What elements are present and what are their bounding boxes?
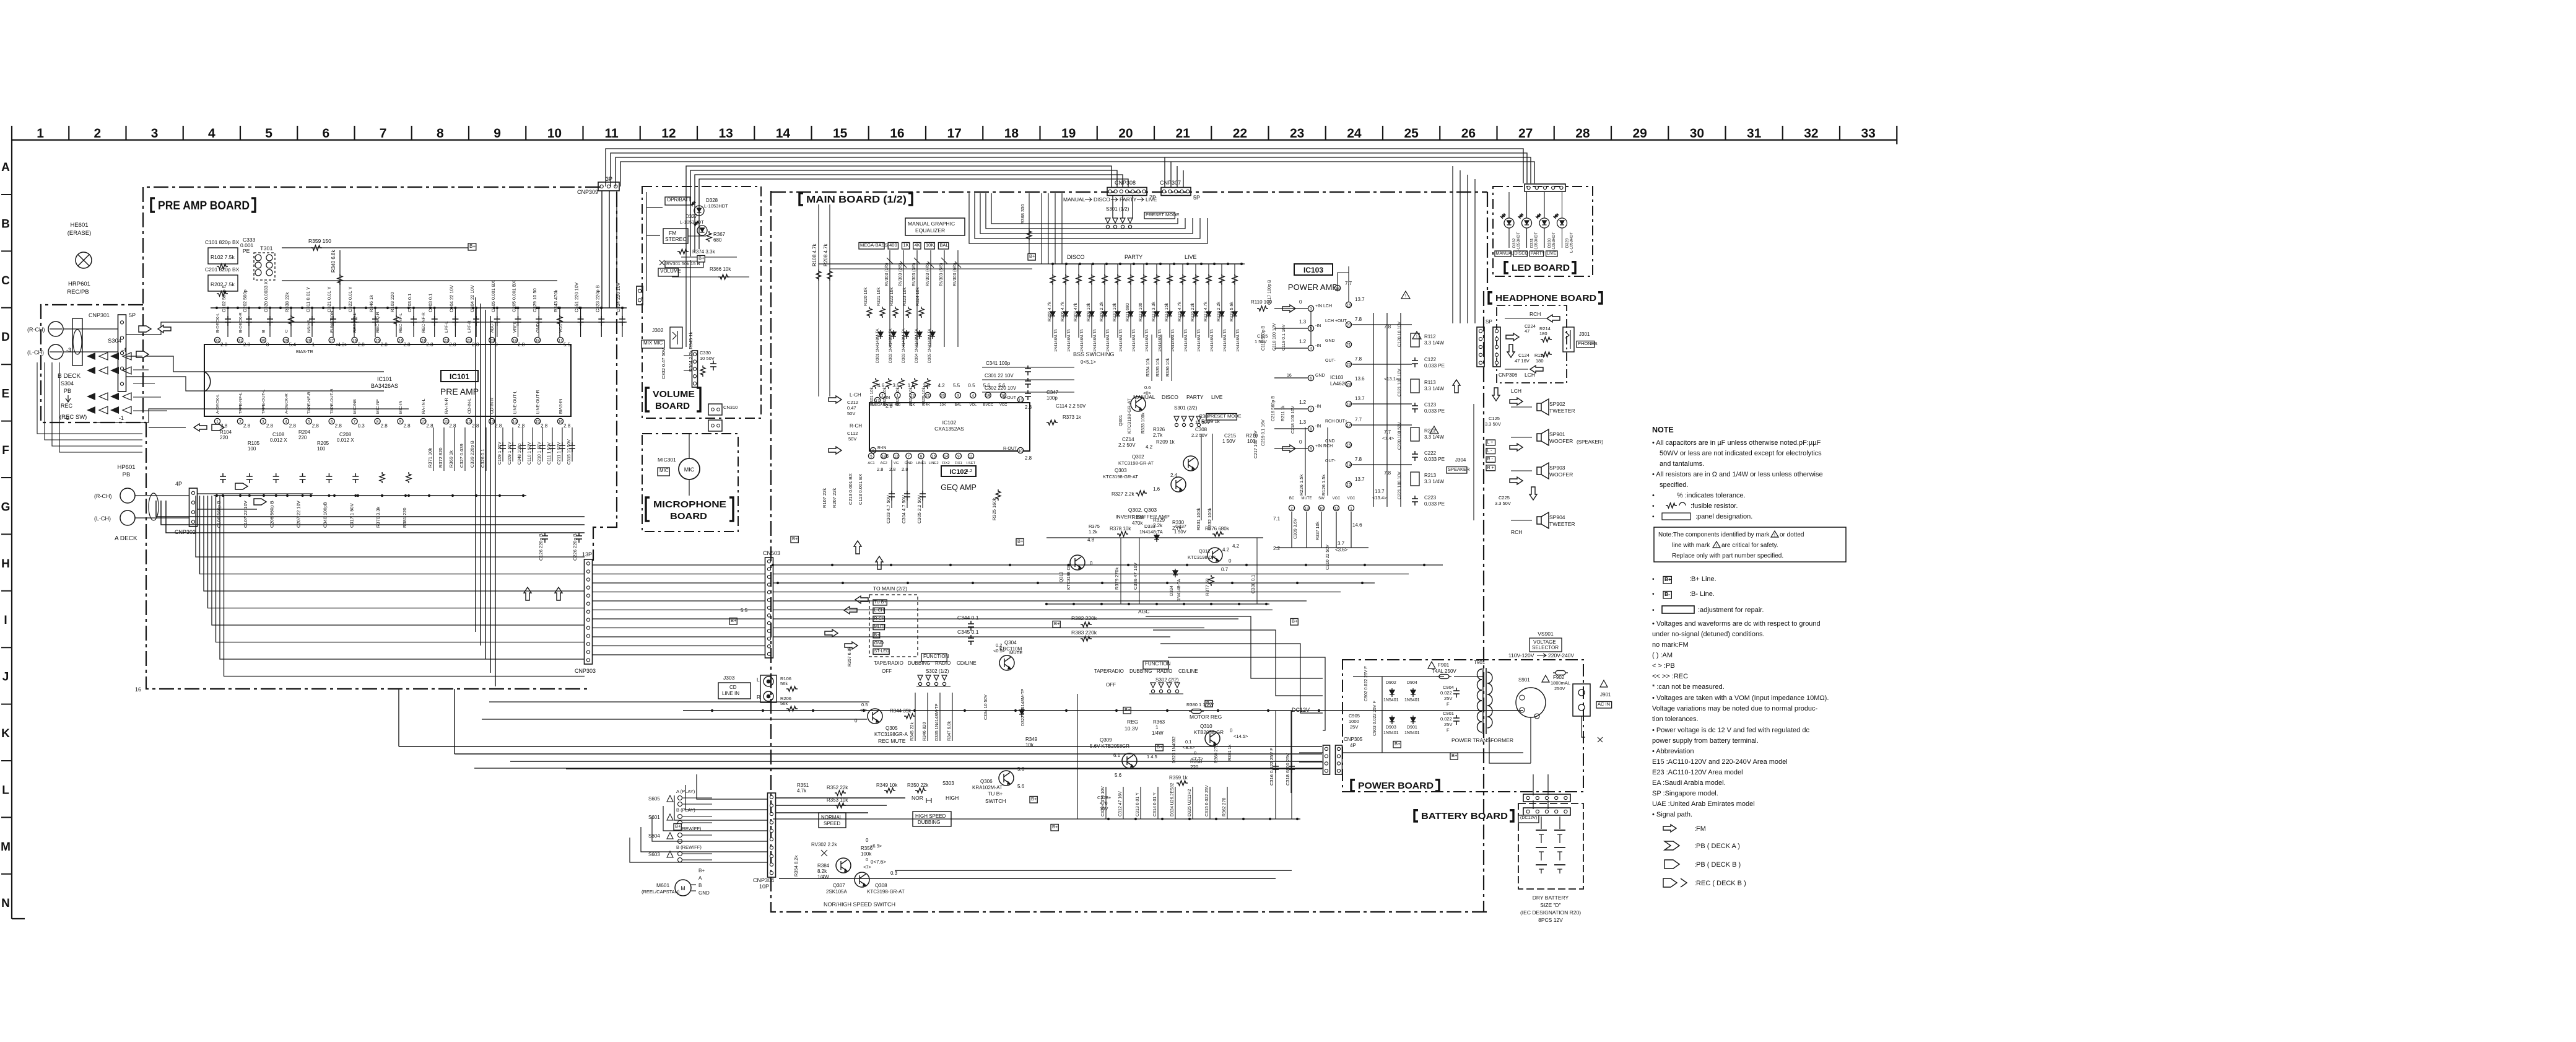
svg-text:-IN: -IN	[1315, 324, 1321, 328]
svg-text:VS901: VS901	[1538, 631, 1554, 637]
svg-text:7.8: 7.8	[1384, 470, 1391, 476]
svg-text:C310 22 50V: C310 22 50V	[1326, 545, 1330, 570]
signal arrow	[139, 326, 151, 332]
svg-text:2.8: 2.8	[335, 423, 342, 429]
svg-text:C330: C330	[700, 350, 711, 356]
svg-text:PRESET MODE: PRESET MODE	[1146, 212, 1179, 217]
FM STEREO box	[663, 229, 688, 243]
svg-text:RCH: RCH	[1511, 529, 1522, 535]
wire preamp lower horizontals	[474, 702, 1323, 768]
IC103 input capacitors	[1254, 279, 1352, 458]
svg-text:Q310: Q310	[1200, 724, 1212, 729]
svg-text:2.8: 2.8	[495, 423, 502, 429]
speakers	[1474, 388, 1603, 535]
svg-text:C218 100 10V: C218 100 10V	[1291, 406, 1295, 434]
svg-text:R326: R326	[1153, 427, 1165, 432]
svg-text:S304: S304	[108, 338, 121, 344]
svg-text:(L-CH): (L-CH)	[27, 349, 44, 356]
svg-text:10: 10	[1320, 507, 1324, 511]
svg-text:D323 1N4002: D323 1N4002	[1172, 737, 1177, 763]
svg-text:2.8: 2.8	[518, 423, 525, 429]
svg-text:15: 15	[931, 455, 936, 459]
svg-text:2.2 50V: 2.2 50V	[1118, 442, 1136, 448]
svg-text:MUTE: MUTE	[874, 625, 887, 629]
svg-text:0.033 PE: 0.033 PE	[1424, 363, 1445, 369]
svg-text:C307: C307	[1199, 414, 1211, 419]
svg-text:MUTE: MUTE	[1302, 497, 1312, 501]
svg-text:R211 1k: R211 1k	[1281, 405, 1286, 421]
svg-text:G: G	[1, 501, 11, 514]
svg-text:D302 1N4148M-TA: D302 1N4148M-TA	[889, 328, 893, 363]
LED D328	[690, 198, 728, 216]
svg-text:TO MAIN (2/2): TO MAIN (2/2)	[873, 585, 907, 592]
svg-text:C209 1 50V: C209 1 50V	[508, 442, 512, 465]
svg-text:25: 25	[1404, 126, 1419, 141]
IC103 left pin column	[1299, 299, 1333, 452]
EQ pots RV303	[885, 250, 961, 347]
svg-text:VOL: VOL	[970, 403, 977, 407]
svg-text:13.7: 13.7	[1375, 489, 1385, 494]
IC101 body	[204, 344, 571, 416]
svg-text:C201 820p BX: C201 820p BX	[205, 266, 240, 273]
svg-text:5P: 5P	[129, 312, 136, 318]
svg-text:3: 3	[957, 394, 959, 398]
svg-text:C313 0.01 Y: C313 0.01 Y	[1136, 792, 1140, 817]
svg-text:D304 1N4148M-TA: D304 1N4148M-TA	[915, 328, 919, 363]
PRE AMP BOARD label	[151, 198, 155, 212]
svg-text:REC-NF-L: REC-NF-L	[399, 313, 403, 333]
svg-text:R343 470k: R343 470k	[553, 289, 559, 312]
svg-text:R375: R375	[1089, 523, 1100, 529]
capacitor C333 0.001 PE	[240, 237, 256, 254]
svg-text:RV301 50k 15 B: RV301 50k 15 B	[666, 261, 700, 266]
svg-text:26: 26	[352, 339, 357, 343]
svg-text:3.3 1/4W: 3.3 1/4W	[1424, 340, 1444, 346]
svg-text:4.2: 4.2	[1222, 547, 1230, 553]
svg-text:R323 10k: R323 10k	[903, 287, 907, 306]
svg-text:2.8: 2.8	[220, 423, 228, 429]
svg-text:C123: C123	[1424, 402, 1437, 408]
svg-text:FM: FM	[669, 230, 676, 236]
svg-text:R367: R367	[713, 232, 726, 237]
invert buffer components	[1103, 414, 1328, 531]
motor M601	[642, 868, 710, 896]
TO MAIN 2/2 box	[869, 585, 918, 657]
svg-text:MOTOR REG: MOTOR REG	[1190, 714, 1222, 720]
IC102 designator	[941, 466, 977, 492]
svg-text:12: 12	[894, 455, 899, 459]
svg-text:-2: -2	[64, 415, 69, 421]
svg-text:11: 11	[1334, 507, 1339, 511]
svg-text:R108 4.7k: R108 4.7k	[812, 243, 817, 266]
svg-text:C109 1 50V: C109 1 50V	[498, 442, 502, 465]
svg-text:27: 27	[329, 339, 334, 343]
svg-text:S301 (2/2): S301 (2/2)	[1174, 405, 1198, 411]
rectifier diodes D901-D904	[1383, 681, 1420, 735]
svg-text:C303 4.7 50V: C303 4.7 50V	[885, 495, 891, 523]
svg-text:DISCO: DISCO	[1515, 252, 1529, 256]
svg-text:R377 68: R377 68	[1204, 579, 1210, 596]
svg-text:R205: R205	[317, 440, 329, 446]
svg-text:C114 2.2 50V: C114 2.2 50V	[1056, 403, 1086, 409]
PRE AMP BOARD outline	[143, 187, 600, 347]
svg-text:R102 7.5k: R102 7.5k	[211, 254, 235, 260]
svg-text:0.033 PE: 0.033 PE	[1424, 501, 1445, 507]
svg-text:100: 100	[248, 446, 256, 452]
svg-text:220: 220	[220, 435, 228, 440]
VOLUME BOARD outline	[642, 186, 761, 418]
wire verticals main board left	[819, 193, 1242, 269]
svg-text:KTC3198-GR-AT: KTC3198-GR-AT	[1103, 474, 1138, 479]
svg-text:R376 680k: R376 680k	[1205, 526, 1230, 532]
LED D327	[680, 214, 707, 235]
svg-text:-IN: -IN	[1315, 424, 1321, 429]
svg-text:RV303 (6/6): RV303 (6/6)	[953, 263, 957, 286]
svg-text:MEGA BASS: MEGA BASS	[872, 403, 893, 407]
svg-text:7: 7	[380, 126, 387, 141]
svg-text::panel designation.: :panel designation.	[1695, 513, 1752, 520]
resistor R367 680	[707, 231, 726, 243]
svg-text:3.7: 3.7	[1338, 541, 1345, 546]
svg-text:D335 1N4148M-TP: D335 1N4148M-TP	[935, 703, 939, 741]
svg-text:•: •	[1652, 576, 1655, 583]
IC103 bottom pins	[1273, 497, 1362, 570]
wire bus CNP307 drops	[1113, 157, 1183, 218]
IC101 designator	[296, 350, 479, 396]
svg-text:R351: R351	[797, 782, 809, 788]
svg-text:C311 0.01 Y: C311 0.01 Y	[305, 287, 311, 312]
svg-text:MANUAL GRAPHIC: MANUAL GRAPHIC	[908, 221, 955, 227]
preset mode row 2	[1133, 394, 1241, 427]
svg-text:F901: F901	[1438, 662, 1450, 668]
svg-text:1N4148M-TA: 1N4148M-TA	[1210, 328, 1214, 352]
svg-text:5.5: 5.5	[953, 383, 960, 388]
transistor Q305 REC MUTE	[855, 702, 915, 744]
svg-text:10 50V: 10 50V	[700, 356, 715, 361]
warning triangles IC103	[1401, 291, 1438, 434]
svg-text:0: 0	[1230, 728, 1233, 733]
svg-text:FUNCTION: FUNCTION	[923, 654, 949, 659]
battery board connectors	[1518, 794, 1570, 823]
svg-text:R359 1k: R359 1k	[1169, 775, 1188, 781]
svg-text:100: 100	[317, 446, 326, 452]
svg-text:KTC3198 OR: KTC3198 OR	[1067, 564, 1071, 590]
volume board wires	[646, 192, 749, 291]
svg-text:Q302. Q303: Q302. Q303	[1128, 507, 1157, 513]
svg-text:-3: -3	[66, 347, 71, 353]
svg-text:R336 10k: R336 10k	[1166, 358, 1170, 377]
svg-text:REC/PB: REC/PB	[67, 289, 89, 296]
svg-text:C328+: C328+	[1097, 795, 1112, 800]
svg-text:S604: S604	[648, 833, 660, 839]
svg-text:<8.3>: <8.3>	[1183, 745, 1195, 750]
svg-text:AC2: AC2	[880, 462, 887, 465]
svg-text:B-DECK-R: B-DECK-R	[238, 312, 243, 333]
BATTERY BOARD outline	[1518, 803, 1583, 889]
svg-text:RCH OUT+: RCH OUT+	[1325, 419, 1347, 424]
svg-text:BATTERY BOARD: BATTERY BOARD	[1421, 811, 1508, 821]
svg-text:D904: D904	[1407, 681, 1417, 685]
svg-text:24: 24	[398, 339, 402, 343]
wire B deck to preamp	[63, 322, 384, 372]
wire power to battery	[1533, 774, 1548, 809]
wire CN503 fan right	[773, 565, 1443, 637]
svg-text:0.022: 0.022	[1440, 690, 1452, 696]
svg-text:2.8: 2.8	[381, 423, 388, 429]
svg-text:C225: C225	[1499, 495, 1510, 501]
svg-text:R207 22k: R207 22k	[832, 488, 837, 508]
svg-text:10: 10	[1019, 449, 1023, 453]
svg-text:MANUAL: MANUAL	[1133, 394, 1155, 400]
MAIN BOARD outline	[771, 191, 1487, 912]
svg-text:1N4148M-TA: 1N4148M-TA	[1236, 328, 1240, 352]
svg-text:1.2k: 1.2k	[1089, 529, 1097, 535]
svg-text:30: 30	[1690, 126, 1704, 141]
svg-text:KTC3198-GR-AT: KTC3198-GR-AT	[1118, 460, 1154, 466]
speaker terminal boxes	[1486, 440, 1495, 471]
resistor R340 6.8k	[331, 250, 342, 310]
svg-text:R349: R349	[1025, 737, 1038, 742]
svg-text:CNP305: CNP305	[1344, 737, 1363, 742]
svg-text:D330: D330	[1547, 238, 1552, 248]
svg-text:J: J	[2, 671, 9, 684]
svg-text:LPF-L: LPF-L	[445, 321, 449, 333]
EQ resistors R301-R305	[870, 378, 930, 406]
svg-text:(REEL/CAPSTAN): (REEL/CAPSTAN)	[642, 889, 680, 895]
svg-text:2.8: 2.8	[923, 383, 930, 388]
svg-text:8.2k: 8.2k	[817, 869, 827, 874]
svg-text:4K: 4K	[915, 242, 920, 248]
MICROPHONE BOARD outline	[642, 434, 738, 532]
svg-text:C904: C904	[1443, 685, 1454, 690]
svg-text:HRP601: HRP601	[68, 281, 90, 287]
svg-text:S601: S601	[648, 815, 660, 820]
svg-text:1: 1	[312, 342, 315, 348]
resistor R110 100	[1251, 299, 1295, 312]
svg-text:R356: R356	[861, 846, 873, 851]
svg-text:11: 11	[444, 420, 448, 424]
svg-text:R378 10k: R378 10k	[1110, 526, 1131, 532]
IC103 wiring stubs	[1274, 309, 1412, 548]
svg-text:CNP309: CNP309	[577, 189, 598, 195]
svg-text:8: 8	[376, 420, 379, 424]
svg-text:J301: J301	[1579, 331, 1590, 337]
svg-text:28: 28	[1575, 126, 1590, 141]
svg-text:2SK105A: 2SK105A	[826, 889, 847, 895]
svg-text:13: 13	[1305, 507, 1309, 511]
svg-text:NOR/HIGH SPEED SWITCH: NOR/HIGH SPEED SWITCH	[824, 901, 895, 908]
svg-text:LIVE: LIVE	[1211, 394, 1223, 400]
svg-text:SP903: SP903	[1549, 465, 1565, 471]
svg-text:7.7: 7.7	[1384, 429, 1391, 435]
border frame	[12, 140, 1897, 919]
IC101 bottom pins 1-16	[214, 388, 570, 429]
svg-text:14: 14	[1347, 463, 1351, 468]
svg-text:16: 16	[135, 686, 141, 693]
svg-text:<14.5>: <14.5>	[1234, 733, 1248, 739]
svg-text:2: 2	[881, 394, 884, 398]
svg-text:28: 28	[307, 339, 311, 343]
svg-text:TAPE-OUT-R: TAPE-OUT-R	[330, 388, 334, 414]
svg-text:B+: B+	[1052, 824, 1058, 830]
svg-text:1N5401: 1N5401	[1383, 698, 1399, 703]
svg-text:10 50V: 10 50V	[1195, 419, 1210, 425]
svg-text:R105: R105	[248, 440, 260, 446]
svg-text:• Voltages and waveforms are d: • Voltages and waveforms are dc with res…	[1652, 620, 1821, 628]
svg-text:C344 0.1: C344 0.1	[957, 615, 979, 621]
svg-text:K: K	[1, 727, 10, 740]
svg-text:ST-LED: ST-LED	[874, 649, 890, 654]
svg-text:1N4148M-TA: 1N4148M-TA	[1067, 328, 1071, 352]
svg-text:B+: B+	[1017, 538, 1024, 544]
capacitor column pins 10-16	[498, 427, 575, 465]
svg-text:CNP302: CNP302	[175, 529, 196, 535]
potentiometer RV301	[659, 260, 703, 268]
svg-text:4.7k: 4.7k	[797, 788, 807, 794]
svg-text:D325 UZ11H2: D325 UZ11H2	[1188, 789, 1192, 817]
svg-text:RA-IN-L: RA-IN-L	[422, 398, 426, 414]
B+ box mid right	[1290, 618, 1298, 625]
svg-text:C315 0.022 25V: C315 0.022 25V	[1205, 785, 1209, 817]
svg-text:GND: GND	[1315, 374, 1325, 378]
svg-text:9: 9	[399, 420, 402, 424]
svg-text:LIVE: LIVE	[1185, 254, 1197, 260]
svg-text:CXA1352AS: CXA1352AS	[934, 426, 964, 432]
svg-text:11: 11	[605, 126, 619, 141]
svg-text:R +: R +	[1487, 466, 1494, 470]
svg-text:C107 22 10V: C107 22 10V	[243, 501, 248, 528]
svg-text:R368 330: R368 330	[1020, 204, 1025, 224]
svg-text:SP904: SP904	[1549, 514, 1565, 520]
svg-text:C115: C115	[1257, 333, 1268, 339]
svg-text:25V: 25V	[1444, 722, 1452, 727]
EQ band labels	[859, 242, 949, 249]
svg-text:CZ14: CZ14	[1122, 437, 1134, 442]
svg-text:180: 180	[1536, 358, 1544, 364]
IC102 top pins	[872, 383, 1007, 407]
ruler row letters A-N	[1, 161, 11, 910]
svg-text:IC102: IC102	[942, 419, 957, 426]
resistor R364 2.2k R345 1k C332 C330	[661, 332, 716, 379]
svg-text:17: 17	[559, 339, 563, 343]
svg-text:1.2: 1.2	[1299, 339, 1307, 344]
connector CNP301 5P	[89, 312, 136, 392]
svg-text:DISCO: DISCO	[1162, 394, 1178, 400]
svg-text:C206 560p B: C206 560p B	[269, 501, 275, 528]
svg-text:220V-240V: 220V-240V	[1548, 652, 1574, 659]
svg-text:R126 1.5k: R126 1.5k	[1321, 475, 1326, 496]
svg-text:(SPEAKER): (SPEAKER)	[1577, 439, 1603, 445]
svg-text:23: 23	[1290, 126, 1304, 141]
svg-text:A DECK: A DECK	[115, 535, 137, 542]
svg-text:3P: 3P	[606, 176, 612, 182]
svg-text:0.6: 0.6	[1144, 385, 1151, 390]
svg-text:NOR: NOR	[912, 795, 923, 801]
svg-text:TAPE-NF-R: TAPE-NF-R	[307, 392, 311, 414]
svg-text:250V: 250V	[1554, 686, 1565, 691]
mute transistor	[993, 642, 1022, 670]
svg-text:C314 0.01 Y: C314 0.01 Y	[1153, 792, 1157, 817]
svg-text:C118 100 10V: C118 100 10V	[1273, 323, 1277, 351]
svg-text:RV303 (5/6): RV303 (5/6)	[939, 263, 944, 286]
svg-text:GND: GND	[905, 462, 913, 465]
svg-text:2.8: 2.8	[1025, 405, 1032, 410]
svg-text:MIC-NF: MIC-NF	[376, 399, 380, 414]
svg-text:0.3: 0.3	[358, 423, 365, 429]
svg-text:A: A	[698, 875, 702, 881]
svg-text:EQUALIZER: EQUALIZER	[915, 227, 945, 234]
svg-text:680: 680	[713, 237, 722, 243]
svg-text:B-DECK-L: B-DECK-L	[216, 313, 220, 333]
buffer lower row	[1087, 523, 1240, 563]
svg-text:2.7k: 2.7k	[1153, 432, 1163, 438]
svg-text:C121 100 10V: C121 100 10V	[1398, 369, 1402, 396]
capacitors C341 C301 C302	[982, 361, 1074, 400]
deck switches S605 S601 S604 S603	[648, 789, 712, 862]
svg-text:Q309: Q309	[1100, 737, 1112, 743]
svg-text:A-DECK-R: A-DECK-R	[284, 393, 289, 414]
svg-text:2.8: 2.8	[358, 342, 365, 348]
svg-text:J901: J901	[1600, 692, 1611, 698]
connector to volume board	[637, 286, 643, 305]
EQ resistors R320-R324	[864, 287, 924, 318]
wire staircase main to power board	[1146, 616, 1325, 730]
svg-text:VREF: VREF	[513, 322, 518, 333]
svg-text:0.5: 0.5	[968, 383, 975, 388]
svg-text:B+: B+	[469, 243, 476, 249]
svg-text:5.4: 5.4	[289, 342, 297, 348]
svg-text:C211 1 50V: C211 1 50V	[557, 442, 562, 465]
svg-text:R-IN: R-IN	[877, 446, 886, 450]
svg-text:C: C	[284, 330, 289, 333]
svg-text:C903 0.022 25V F: C903 0.022 25V F	[1373, 701, 1377, 736]
svg-text:R350 22k: R350 22k	[907, 782, 929, 788]
svg-text:REC-EQ-R: REC-EQ-R	[376, 312, 380, 333]
svg-text:2.8: 2.8	[518, 342, 525, 348]
svg-text:SW: SW	[1318, 497, 1325, 501]
battery caption	[1520, 895, 1581, 923]
svg-text:GND: GND	[1325, 339, 1335, 343]
svg-text:POWER TRANSFORMER: POWER TRANSFORMER	[1451, 737, 1513, 743]
svg-text:R104: R104	[220, 429, 232, 435]
svg-text:SPEAKER: SPEAKER	[1448, 466, 1470, 472]
B+ boxes row H	[791, 536, 1024, 545]
svg-text:RA-IN-R: RA-IN-R	[445, 398, 449, 414]
battery cells	[1536, 817, 1565, 873]
svg-text:B: B	[261, 330, 266, 333]
svg-text:10V: 10V	[1100, 806, 1108, 812]
svg-text:13P: 13P	[582, 551, 592, 558]
svg-text:VCC: VCC	[1347, 497, 1355, 501]
svg-text:B+: B+	[675, 823, 681, 829]
svg-text:0: 0	[866, 857, 868, 862]
svg-text:R372 820: R372 820	[438, 447, 443, 468]
svg-text:R226 1.5k: R226 1.5k	[1299, 475, 1304, 496]
svg-text:DUBBING: DUBBING	[918, 820, 940, 825]
svg-text:Q301: Q301	[1118, 415, 1123, 426]
svg-text:2.8: 2.8	[381, 342, 388, 348]
svg-text:17: 17	[1347, 424, 1351, 428]
svg-text:16: 16	[559, 420, 563, 424]
svg-text:24: 24	[1347, 126, 1362, 141]
svg-text:C321 0.01 Y: C321 0.01 Y	[326, 286, 332, 312]
svg-text:50V: 50V	[847, 411, 855, 416]
svg-text:0.1: 0.1	[1185, 739, 1191, 745]
svg-text:1.3: 1.3	[1299, 319, 1307, 325]
svg-text:R208 4.7k: R208 4.7k	[823, 243, 829, 266]
svg-text:E15 :AC110-120V and 220-240V A: E15 :AC110-120V and 220-240V Area model	[1652, 758, 1788, 766]
MAIN BOARD label	[799, 193, 803, 205]
